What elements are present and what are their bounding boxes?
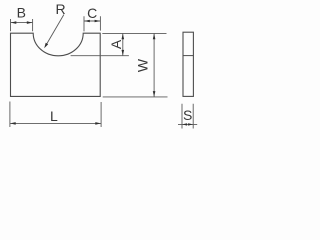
dimension B arrows: [11, 21, 17, 24]
svg-text:R: R: [56, 1, 66, 17]
svg-text:S: S: [183, 107, 192, 123]
dimension L line: [10, 122, 101, 124]
dimension C line: [84, 20, 100, 22]
svg-text:A: A: [108, 39, 124, 49]
top extension line (A/W): [102, 32, 166, 34]
svg-text:C: C: [87, 5, 97, 21]
dimension W arrows: [153, 34, 156, 40]
dimension S arrows: [182, 123, 187, 125]
dimension C arrows: [84, 20, 90, 23]
front view: block with semicircular notch: [11, 33, 101, 96]
dimension A arrows: [122, 34, 125, 40]
dimension L extension lines: [10, 102, 101, 128]
dimension S line: [178, 123, 197, 125]
side view notch-depth line: [183, 55, 193, 57]
side view: thin rectangle: [183, 32, 193, 96]
dimension W line: [153, 34, 155, 97]
dimension C extension lines: [84, 16, 100, 31]
dimension L arrows: [10, 122, 16, 125]
dimension B line: [11, 22, 33, 24]
dimension S extension lines: [182, 104, 193, 129]
notch-depth extension line (A bottom): [71, 55, 129, 57]
svg-text:W: W: [135, 58, 151, 72]
svg-text:L: L: [50, 108, 58, 124]
dimension A line: [122, 34, 124, 56]
bottom extension line (W): [103, 96, 168, 98]
radius leader line: [47, 15, 64, 44]
dimension B extension lines: [11, 19, 33, 31]
radius leader arrow: [44, 43, 48, 49]
svg-text:B: B: [17, 5, 26, 21]
